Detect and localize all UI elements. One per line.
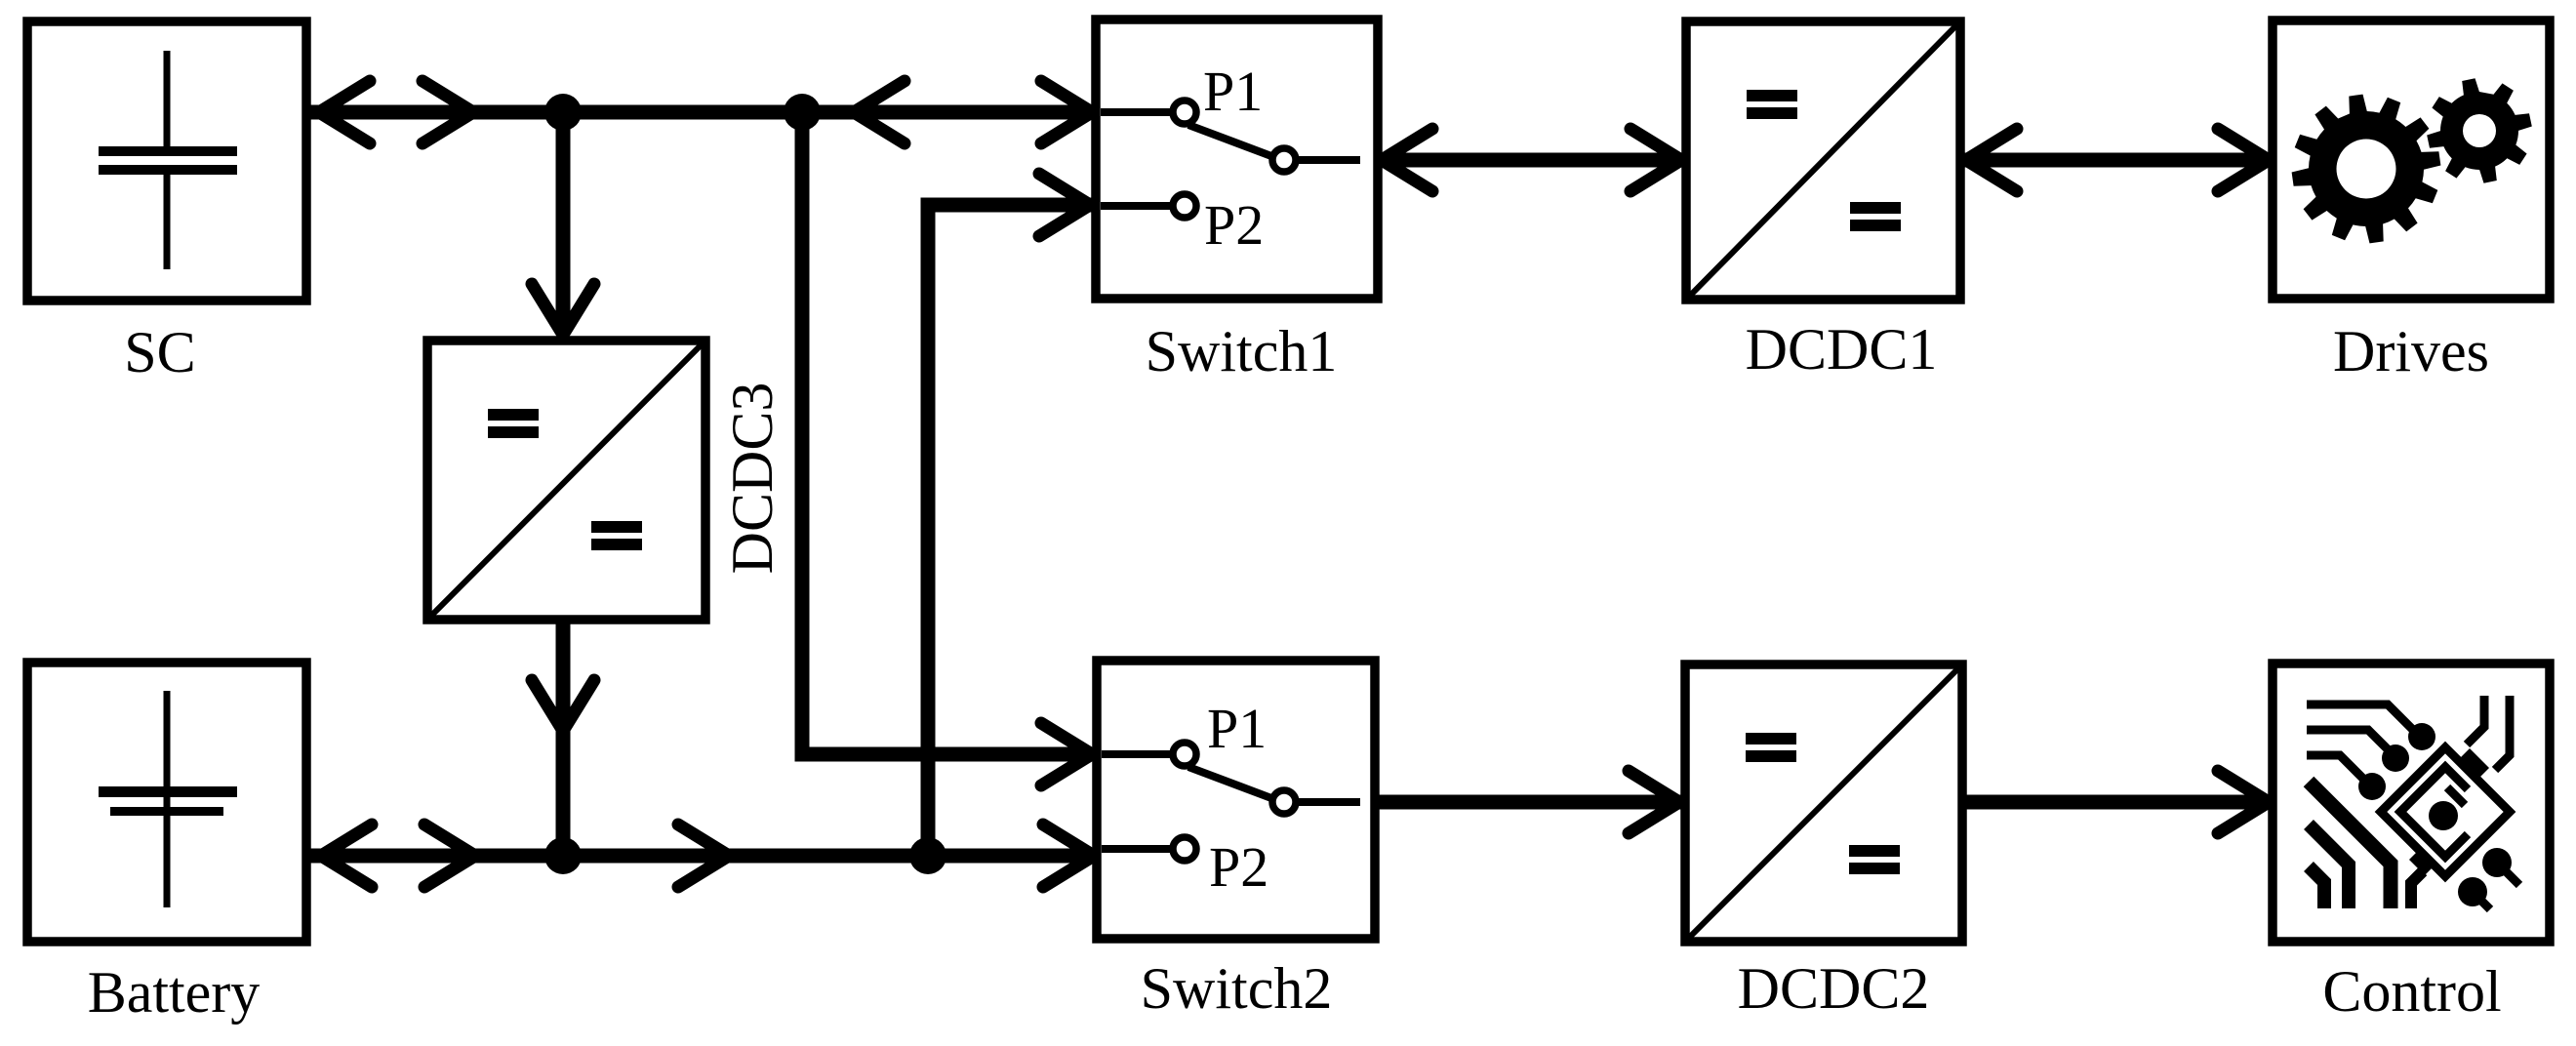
arrowhead right mid top bus bbox=[423, 81, 473, 143]
svg-text:Drives: Drives bbox=[2333, 319, 2489, 383]
svg-text:DCDC3: DCDC3 bbox=[720, 382, 785, 575]
wire from top bus junction down into DCDC3 bbox=[556, 112, 571, 333]
DCDC2 converter symbol (diagonal and = signs) bbox=[1688, 667, 1959, 939]
arrowhead left toward Battery on battery bus bbox=[321, 825, 372, 887]
node junction battery bus at DCDC3 output bbox=[544, 837, 582, 874]
circuit-board icon in Control box bbox=[2307, 696, 2519, 909]
arrowhead left toward DCDC1 on Drives wire bbox=[1966, 129, 2017, 191]
switch symbol inside Switch2 bbox=[1102, 743, 1360, 861]
DCDC3 converter symbol (diagonal and = signs) bbox=[430, 343, 703, 617]
svg-text:P2: P2 bbox=[1209, 835, 1268, 899]
capacitor symbol inside SC bbox=[99, 51, 237, 269]
switch symbol inside Switch1 bbox=[1101, 101, 1360, 218]
svg-text:P1: P1 bbox=[1203, 60, 1263, 123]
arrowhead right into DCDC1 bbox=[1630, 129, 1681, 191]
wire DCDC1 to Drives bbox=[1962, 153, 2271, 168]
box Drives bbox=[2273, 20, 2550, 299]
arrowhead right mid battery bus bbox=[424, 825, 475, 887]
svg-text:DCDC1: DCDC1 bbox=[1746, 317, 1938, 382]
box SC (supercapacitor) bbox=[27, 21, 306, 301]
wire from battery bus junction up and right to Switch1 P2 bbox=[928, 205, 1092, 856]
svg-text:Battery: Battery bbox=[88, 960, 261, 1025]
arrowhead right into Switch1 P2 bbox=[1039, 174, 1090, 236]
box DCDC3 bbox=[427, 341, 705, 620]
node junction top bus to DCDC3 bbox=[544, 94, 582, 131]
wire Switch2 to DCDC2 bbox=[1377, 795, 1683, 810]
svg-text:Switch1: Switch1 bbox=[1146, 319, 1338, 383]
svg-text:SC: SC bbox=[124, 320, 195, 384]
node junction top bus to Switch2 branch bbox=[784, 94, 821, 131]
node junction battery bus to Switch1 branch bbox=[909, 837, 946, 874]
svg-text:DCDC2: DCDC2 bbox=[1738, 956, 1930, 1021]
svg-text:Control: Control bbox=[2322, 959, 2501, 1024]
wire top DC bus from SC to Switch1 bbox=[304, 105, 1095, 120]
wire DCDC2 to Control bbox=[1964, 795, 2271, 810]
wire battery bus from Battery to Switch2 bbox=[304, 849, 1096, 864]
box Switch1 bbox=[1096, 20, 1378, 299]
arrowhead down on DCDC3 output wire bbox=[532, 680, 594, 731]
svg-text:P2: P2 bbox=[1204, 193, 1264, 257]
arrowhead left toward Switch1 on DCDC1 wire bbox=[1382, 129, 1432, 191]
arrowhead left toward SC on top bus bbox=[319, 81, 370, 143]
arrowhead right into Switch1 P1 bbox=[1041, 81, 1092, 143]
box Battery bbox=[27, 663, 306, 942]
svg-text:P1: P1 bbox=[1207, 697, 1267, 760]
DCDC1 converter symbol (diagonal and = signs) bbox=[1689, 24, 1957, 297]
arrowhead right into Drives bbox=[2218, 129, 2269, 191]
arrowhead right on battery bus after junction bbox=[678, 825, 729, 887]
wire from DCDC3 output down to battery bus junction bbox=[556, 621, 571, 856]
arrowhead down into DCDC3 bbox=[532, 284, 594, 335]
battery symbol inside Battery box bbox=[99, 691, 237, 907]
box Switch2 bbox=[1097, 661, 1375, 939]
wire Switch1 to DCDC1 bbox=[1378, 153, 1685, 168]
arrowhead right into Switch2 P2 bbox=[1043, 825, 1094, 887]
wire from top bus junction down and right to Switch2 P1 bbox=[802, 112, 1094, 754]
arrowhead left mid top bus near Switch1 bbox=[854, 81, 905, 143]
arrowhead right into Switch2 P1 bbox=[1041, 723, 1092, 785]
box DCDC1 bbox=[1686, 21, 1960, 300]
gears icon in Drives box bbox=[2292, 78, 2532, 243]
svg-text:Switch2: Switch2 bbox=[1141, 956, 1333, 1021]
arrowhead right into Control bbox=[2218, 771, 2269, 833]
box Control bbox=[2273, 664, 2550, 942]
box DCDC2 bbox=[1685, 664, 1962, 942]
arrowhead right into DCDC2 bbox=[1629, 771, 1679, 833]
